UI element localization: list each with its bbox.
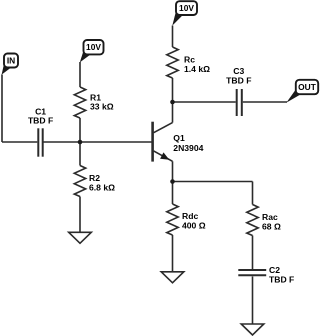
svg-text:TBD F: TBD F — [28, 116, 53, 126]
svg-text:10V: 10V — [86, 42, 101, 52]
svg-text:2N3904: 2N3904 — [173, 143, 203, 153]
svg-text:OUT: OUT — [298, 82, 317, 92]
svg-text:68 Ω: 68 Ω — [262, 222, 281, 232]
svg-text:TBD F: TBD F — [269, 274, 294, 284]
svg-text:1.4 kΩ: 1.4 kΩ — [184, 64, 210, 74]
svg-text:IN: IN — [7, 56, 15, 66]
svg-text:TBD F: TBD F — [226, 75, 251, 85]
svg-text:10V: 10V — [179, 3, 194, 13]
svg-text:400 Ω: 400 Ω — [182, 221, 206, 231]
svg-text:Q1: Q1 — [173, 133, 185, 143]
svg-text:6.8 kΩ: 6.8 kΩ — [89, 183, 115, 193]
svg-text:33 kΩ: 33 kΩ — [90, 102, 114, 112]
